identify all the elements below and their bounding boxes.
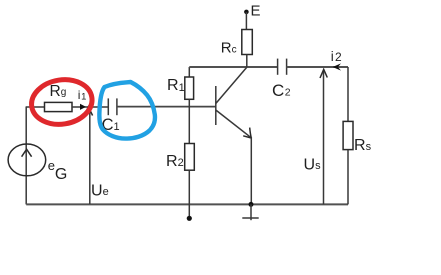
node R2 bottom dot <box>187 216 192 221</box>
ground <box>250 204 252 220</box>
annotation blue blob <box>99 82 155 139</box>
wire input top left <box>26 106 45 108</box>
arrow i1 <box>80 104 86 110</box>
capacitor C1 <box>107 98 109 115</box>
wire Rc to rail <box>246 55 248 68</box>
wire R2 bottom through rail <box>188 170 190 218</box>
arrow Ue voltage <box>89 110 91 204</box>
node R1R2 vertical <box>188 67 190 77</box>
node E dot <box>244 10 249 15</box>
wire Rg to C1 <box>72 106 108 108</box>
resistor Rc <box>242 30 253 55</box>
svg-text:i2: i2 <box>331 49 342 64</box>
transistor Q1 emitter arrowhead <box>243 128 251 138</box>
transistor Q1 emitter <box>216 110 252 138</box>
arrow i2 <box>333 63 341 70</box>
wire R1 bottom to R2 top <box>188 99 190 143</box>
resistor Rs <box>343 121 353 149</box>
wire emitter vertical <box>250 137 252 204</box>
resistor Rg <box>45 102 73 111</box>
wire Rs to rail <box>347 150 349 205</box>
transistor Q1 collector <box>216 67 247 103</box>
wire bottom rail <box>26 203 348 205</box>
wire C1 to base <box>117 106 216 108</box>
wire E to Rc <box>245 12 247 30</box>
wire top rail right <box>287 66 348 68</box>
svg-text:E: E <box>251 3 261 20</box>
arrow Us voltage <box>323 70 325 204</box>
node emitter-rail dot <box>249 202 254 207</box>
wire right vertical to Rs <box>347 67 349 121</box>
annotation red ellipse <box>28 75 95 128</box>
source eG circle <box>8 144 46 176</box>
wire left vertical <box>25 107 27 204</box>
wire top rail left <box>189 66 277 68</box>
resistor R1 <box>185 77 194 99</box>
resistor R2 <box>185 144 195 171</box>
capacitor C2 <box>277 59 279 75</box>
transistor Q1 base bar <box>215 86 217 125</box>
svg-text:Ue: Ue <box>91 183 109 200</box>
source eG arrow <box>22 149 32 157</box>
